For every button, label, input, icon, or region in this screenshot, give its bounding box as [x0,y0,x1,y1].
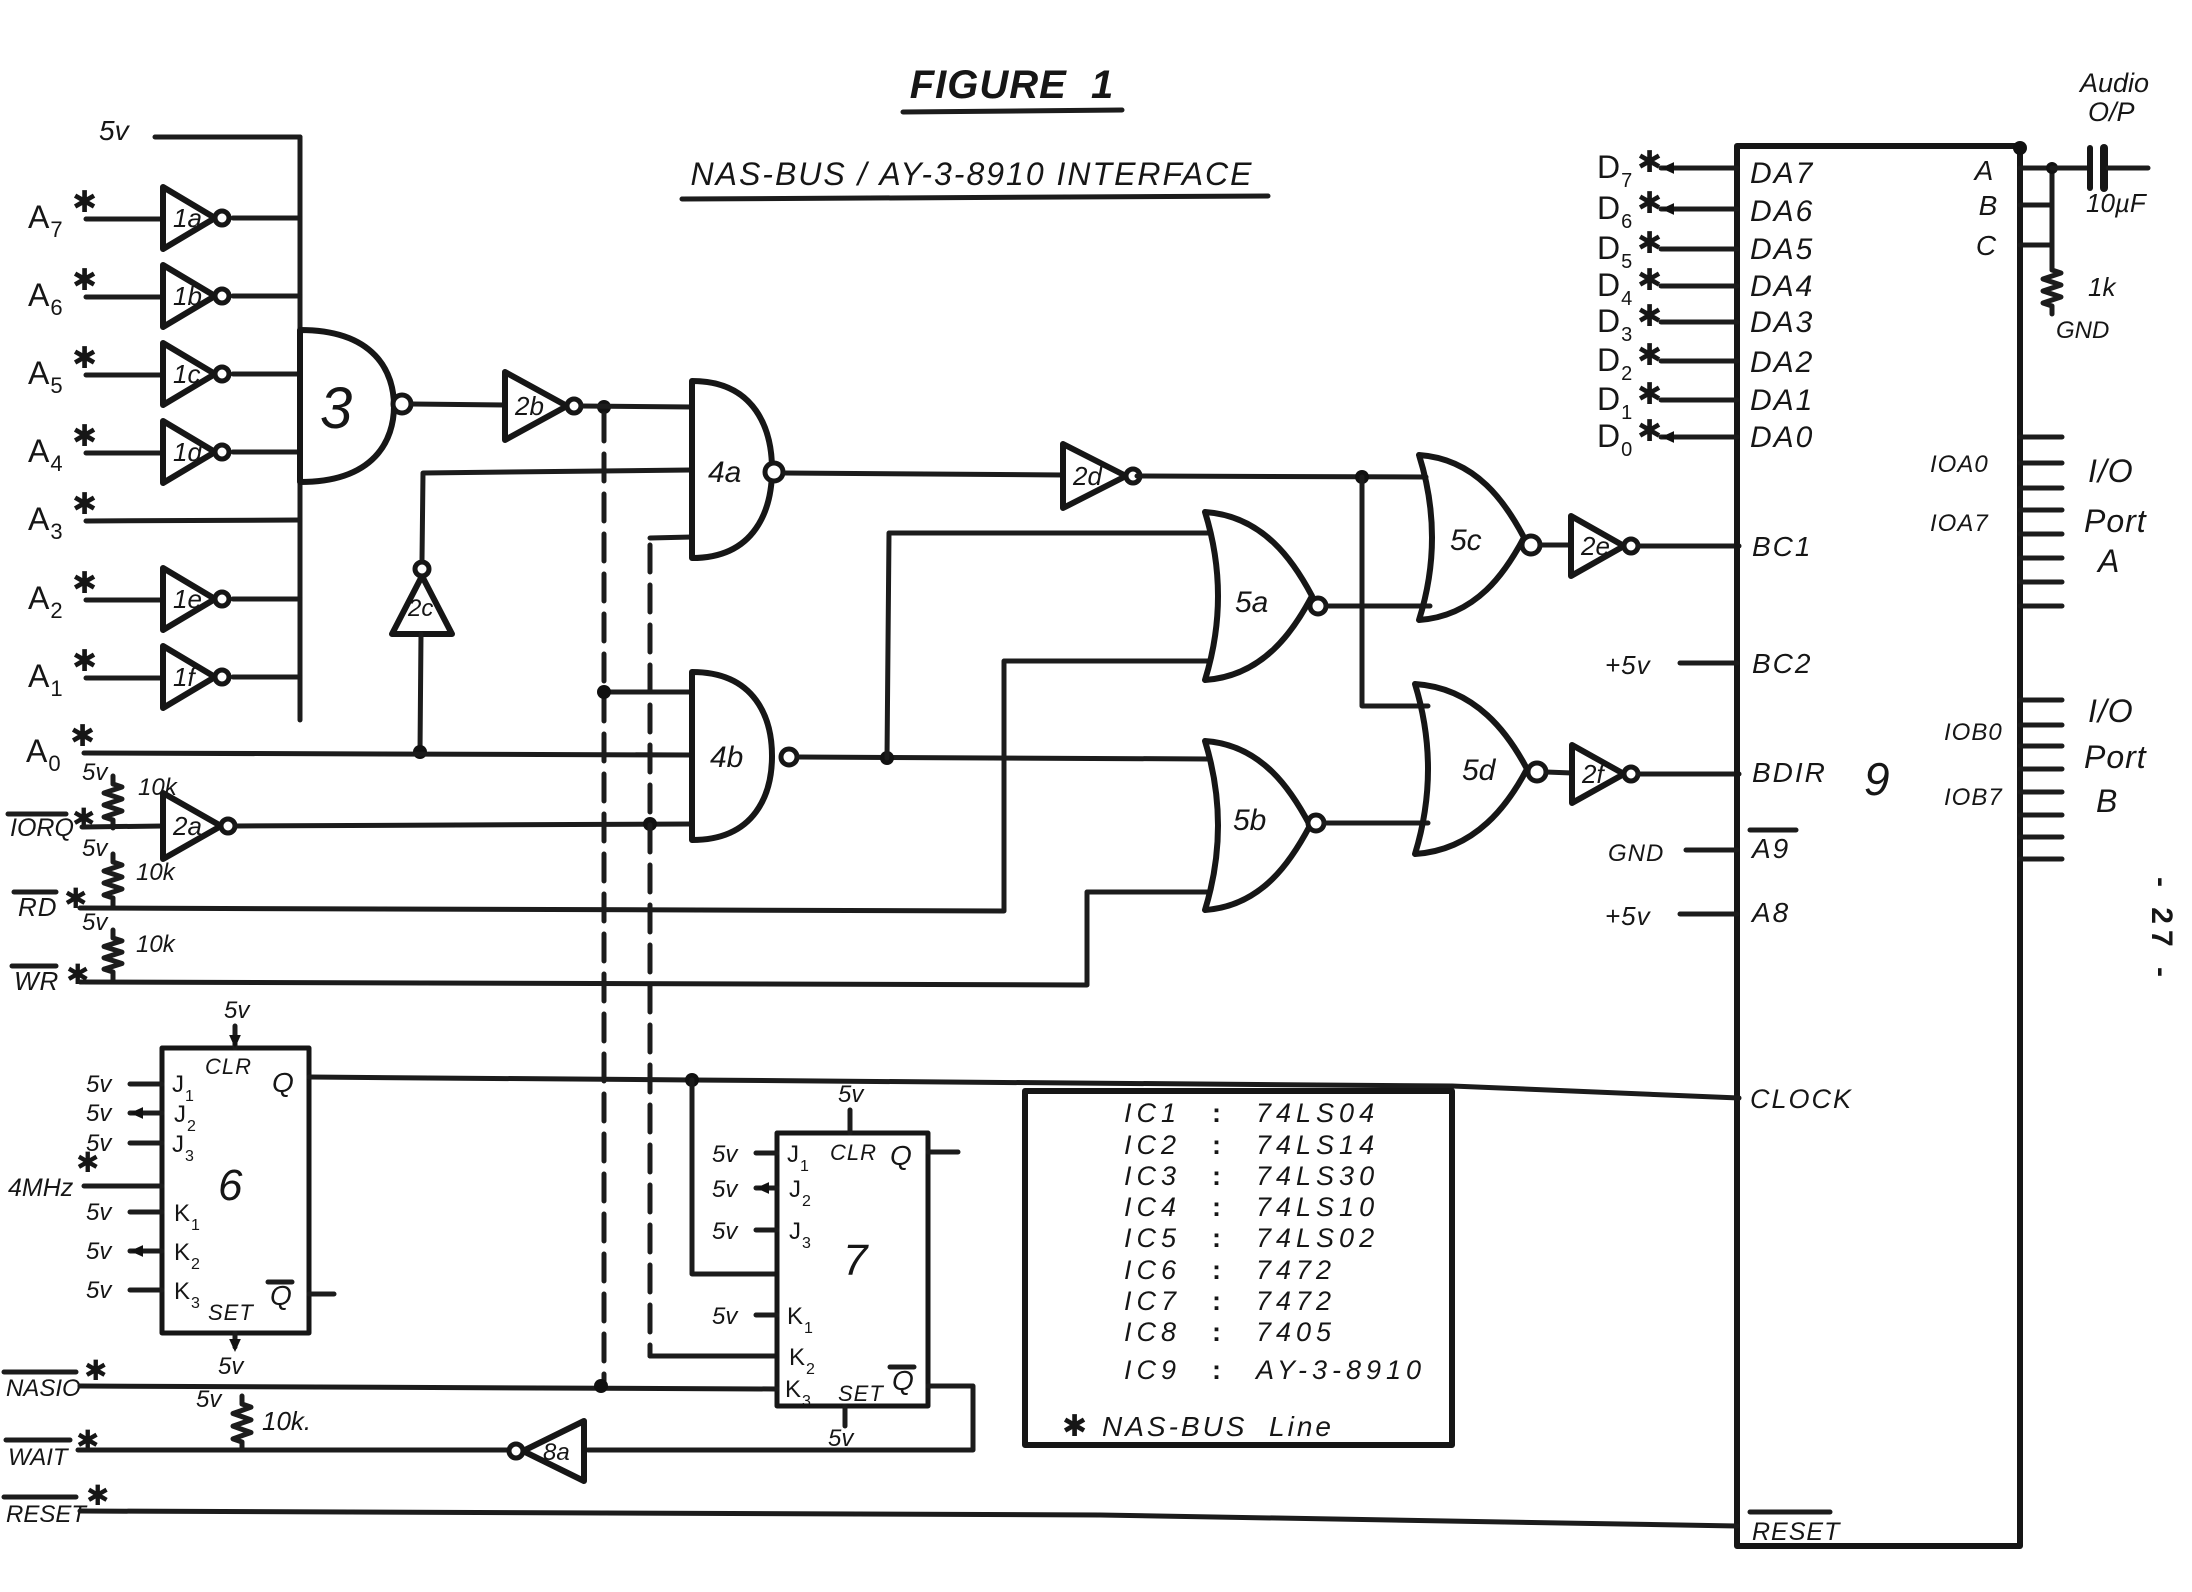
svg-text:5v: 5v [218,1353,245,1380]
svg-text:5v: 5v [712,1303,739,1330]
wire 2b to 4a [581,406,692,407]
svg-text:I/O: I/O [2088,693,2134,729]
pin IOA stub 6 [2020,580,2062,585]
wire 4b top input [604,690,692,695]
wire 5v FF7 [848,1110,853,1133]
pin IOA stub 7 [2020,604,2062,609]
wire A9/GND [1686,848,1737,853]
svg-text:Q: Q [272,1067,294,1098]
svg-text:✱: ✱ [72,645,97,678]
svg-text:✱: ✱ [72,567,97,600]
wire FF7 clock feed [692,1080,777,1274]
svg-text:BC2: BC2 [1752,648,1812,679]
node junction 2d/5d [1355,470,1369,484]
nor gate 5a [1205,512,1312,680]
svg-text:DA0: DA0 [1750,421,1814,454]
svg-text:IC2: IC2 [1124,1130,1181,1160]
wire A5* input [86,373,163,378]
nand gate 4b [692,672,772,840]
svg-text:74LS04: 74LS04 [1256,1098,1379,1128]
svg-text:IOB7: IOB7 [1944,784,2003,811]
capacitor 10uF [2087,148,2093,188]
wire 5v FF6 [233,1026,238,1048]
wire 2c output up to 4a [422,470,690,560]
pin IOA stub 3 [2020,508,2062,513]
wire 5v feed [155,135,300,140]
svg-text:DA5: DA5 [1750,233,1814,266]
svg-text:1e: 1e [173,584,202,614]
svg-text:74LS30: 74LS30 [1256,1161,1379,1191]
node junction dashed/4b [597,685,611,699]
svg-text:WR: WR [14,966,59,996]
svg-text:74LS14: 74LS14 [1256,1130,1379,1160]
parts list box [1025,1091,1452,1445]
wire FF7 J2 [756,1186,777,1191]
svg-text:+5v: +5v [1605,650,1652,680]
resistor 10k IORQ pullup [104,776,122,828]
wire IORQ* input [82,826,163,827]
svg-text:✱: ✱ [72,342,97,375]
svg-text:5d: 5d [1462,754,1497,787]
svg-text:7405: 7405 [1256,1317,1336,1347]
wire FF7 Q stub [928,1150,958,1155]
svg-text::: : [1212,1317,1221,1347]
ic FF6 box [162,1048,309,1333]
svg-text:1f: 1f [173,662,197,692]
svg-text:5v: 5v [86,1071,113,1098]
svg-text:1k: 1k [2088,272,2117,302]
svg-text:2b: 2b [514,391,544,421]
svg-text:DA3: DA3 [1750,306,1814,339]
wire FF6 J1 [130,1082,162,1087]
wire FF6 SET 5v [233,1333,238,1347]
wire 5d to 2f [1546,772,1572,773]
svg-text:2f: 2f [1581,759,1606,789]
svg-text:CLR: CLR [830,1140,877,1165]
wire A4* input [86,451,163,456]
svg-text:IC4: IC4 [1124,1192,1181,1222]
svg-text:NAS-BUS Line: NAS-BUS Line [1102,1411,1334,1442]
inverter 1f [163,646,215,708]
wire D7* [1661,166,1737,171]
wire 5b to 5d [1324,821,1428,826]
wire D4* [1661,284,1737,289]
svg-text:IOA0: IOA0 [1930,451,1989,478]
inverter 1b [163,265,215,327]
wire BDIR [1638,772,1739,777]
svg-text:✱: ✱ [1637,378,1662,411]
svg-text:✱: ✱ [72,420,97,453]
nor gate 5c [1419,455,1524,620]
pin IOA stub 1 [2020,461,2062,466]
svg-text:Port: Port [2084,739,2147,775]
svg-text:IC1: IC1 [1124,1098,1181,1128]
svg-text:4a: 4a [708,456,741,489]
pin IOA stub 2 [2020,486,2062,491]
svg-text:IC9: IC9 [1124,1355,1181,1385]
svg-text:5v: 5v [82,835,109,862]
wire C out [2020,243,2052,248]
svg-text:8a: 8a [543,1439,570,1466]
svg-text:DA4: DA4 [1750,270,1814,303]
wire WAIT* [78,1448,509,1453]
wire FF7 K1 [756,1313,777,1318]
ic U9 AY-3-8910 box [1737,146,2020,1546]
svg-text:✱: ✱ [1637,339,1662,372]
svg-text:✱: ✱ [84,1355,108,1386]
wire D6* [1661,207,1737,212]
pin IOA stub 4 [2020,532,2062,537]
svg-text:✱: ✱ [1637,187,1662,220]
svg-text:5v: 5v [99,115,131,146]
svg-text:7472: 7472 [1256,1286,1336,1316]
wire 2d to 5c [1137,476,1426,477]
svg-text:✱: ✱ [1637,146,1662,179]
svg-text:7472: 7472 [1256,1255,1336,1285]
pin IOA stub 5 [2020,556,2062,561]
svg-text:IC6: IC6 [1124,1255,1181,1285]
pin IOB stub 2 [2020,744,2062,749]
wire FF7 J3 [756,1228,777,1233]
wire D3* [1661,320,1737,325]
inverter 8a [523,1421,584,1481]
wire FF6 J2 [130,1111,162,1116]
svg-text::: : [1212,1286,1221,1316]
svg-text:10k: 10k [136,859,177,886]
svg-text:NASIO: NASIO [6,1375,81,1402]
wire 4MHz input [84,1184,162,1189]
svg-text:B: B [2096,783,2118,819]
resistor 1k [2043,262,2061,314]
wire D5* [1661,247,1737,252]
wire 1a output [233,216,300,221]
svg-text:A8: A8 [1750,897,1790,928]
svg-text:CLR: CLR [205,1054,252,1079]
svg-text:DA1: DA1 [1750,384,1814,417]
inverter 1d [163,421,215,483]
svg-text:GND: GND [2056,317,2109,344]
inverter 2a [163,793,221,859]
svg-text:✱: ✱ [86,1480,110,1511]
wire RD* [80,661,1210,911]
nand gate 3 (74LS30) [300,330,394,482]
svg-text:5v: 5v [82,909,109,936]
node junction clock/FF7 [685,1073,699,1087]
svg-text:2e: 2e [1580,531,1610,561]
svg-text:✱: ✱ [72,264,97,297]
node junction A/cap [2046,162,2058,174]
svg-text:5a: 5a [1235,586,1268,619]
svg-text:RD: RD [18,892,58,922]
node junction A0/2c [413,745,427,759]
wire FF6 Qbar stub [309,1292,334,1297]
svg-text::: : [1212,1161,1221,1191]
svg-text:74LS02: 74LS02 [1256,1223,1379,1253]
svg-text:BDIR: BDIR [1752,757,1827,788]
svg-text:4b: 4b [710,741,743,774]
svg-text:5v: 5v [712,1141,739,1168]
svg-text::: : [1212,1130,1221,1160]
nor gate 5b [1205,741,1310,910]
svg-text::: : [1212,1223,1221,1253]
wire FF6 K1 [130,1210,162,1215]
wire FF6 J3 [130,1141,162,1146]
node junction NASIO/dashed [594,1379,608,1393]
node junction 2b output [597,400,611,414]
wire BC2 [1680,661,1737,666]
svg-text:CLOCK: CLOCK [1750,1084,1853,1114]
svg-text:10k.: 10k. [262,1406,311,1436]
svg-text:74LS10: 74LS10 [1256,1192,1379,1222]
wire A2* input [86,598,163,603]
wire input rail IC3 [298,137,303,720]
wire junction down to 5d [1362,477,1428,706]
wire A8 [1680,912,1737,917]
svg-text:DA6: DA6 [1750,195,1814,228]
inverter 2f [1572,745,1624,803]
svg-text:BC1: BC1 [1752,531,1812,562]
svg-text:A: A [1973,155,1994,186]
svg-text:RESET: RESET [6,1501,88,1528]
svg-text:5v: 5v [712,1218,739,1245]
resistor 10k RD pullup [104,854,122,906]
svg-text:NAS-BUS / AY-3-8910 INTERFACE: NAS-BUS / AY-3-8910 INTERFACE [690,156,1253,192]
svg-text:5c: 5c [1450,524,1482,557]
svg-text:✱: ✱ [1637,264,1662,297]
svg-text:+5v: +5v [1605,901,1652,931]
inverter 1e [163,568,215,630]
svg-text:✱: ✱ [66,959,90,990]
svg-text:Q: Q [270,1280,292,1311]
nand gate 4a [692,381,772,558]
svg-text:Q: Q [892,1365,914,1396]
wire WR* [80,892,1210,985]
svg-text:IC8: IC8 [1124,1317,1181,1347]
pin IOB stub 6 [2020,835,2062,840]
svg-text:5v: 5v [86,1277,113,1304]
pin IOB stub 5 [2020,813,2062,818]
wire A7* input [86,217,163,222]
wire dashed top to 4a [650,537,692,538]
svg-text:2d: 2d [1072,461,1103,491]
wire riser to 5a [887,533,1210,758]
wire 1c output [233,372,300,377]
wire 1e output [233,597,300,602]
svg-text:B: B [1979,190,1998,221]
svg-text:DA2: DA2 [1750,346,1814,379]
svg-text:10µF: 10µF [2086,188,2148,218]
wire NASIO* [80,1386,777,1389]
wire 5a to 5c [1326,604,1430,609]
wire A1* input [86,676,163,681]
wire dashed bus to NASIO [602,414,607,1383]
wire 1f output [233,675,300,680]
inverter 2d [1063,444,1126,508]
svg-text:WAIT: WAIT [8,1444,70,1471]
svg-text:FIGURE 1: FIGURE 1 [910,63,1115,107]
inverter 2c [392,576,452,634]
svg-text:✱: ✱ [70,720,95,753]
svg-text:SET: SET [838,1381,884,1406]
svg-text:✱: ✱ [1637,300,1662,333]
svg-text:✱: ✱ [72,488,97,521]
wire 4b to 5b [798,757,1208,759]
pin IOB stub 3 [2020,767,2062,772]
inverter 1a [163,187,215,249]
wire FF7 SET 5v [843,1406,848,1426]
pin IOB stub 0 [2020,698,2062,703]
svg-text:6: 6 [218,1161,243,1210]
node junction ic corner [2013,141,2027,155]
wire RESET* [80,1511,1737,1526]
wire dashed bottom to FF7 K2 [650,1354,777,1359]
wire 3 to 2b [412,404,505,405]
svg-text:A: A [2096,543,2120,579]
wire A3* [86,520,300,521]
svg-text:IC7: IC7 [1124,1286,1181,1316]
wire to capacitor [2052,166,2088,171]
pin IOB stub 1 [2020,723,2062,728]
svg-text:5v: 5v [86,1199,113,1226]
svg-text:1d: 1d [173,437,203,467]
svg-text:IC5: IC5 [1124,1223,1181,1253]
svg-text:2a: 2a [172,811,202,841]
wire D2* [1661,359,1737,364]
pin IOB stub 7 [2020,857,2062,862]
svg-text:3: 3 [320,376,352,441]
svg-text:O/P: O/P [2088,97,2135,127]
svg-text:5b: 5b [1233,804,1266,837]
wire D1* [1661,398,1737,403]
wire ABC common [2050,168,2055,262]
svg-text:1a: 1a [173,203,202,233]
resistor 10k WR pullup [104,930,122,980]
svg-text:✱: ✱ [1637,415,1662,448]
svg-text:AY-3-8910: AY-3-8910 [1254,1355,1426,1385]
svg-text:✱: ✱ [1062,1410,1088,1443]
ic FF7 box [777,1133,928,1406]
svg-text::: : [1212,1355,1221,1385]
svg-text::: : [1212,1098,1221,1128]
svg-text:✱: ✱ [76,1147,100,1178]
svg-text:1c: 1c [173,359,200,389]
svg-text:5v: 5v [224,997,251,1024]
svg-text:IOA7: IOA7 [1930,510,1989,537]
wire 1d output [233,450,300,455]
svg-text:10k: 10k [136,931,177,958]
svg-text:I/O: I/O [2088,453,2134,489]
svg-text:Port: Port [2084,503,2147,539]
wire 5c to 2e [1540,543,1571,548]
svg-text:DA7: DA7 [1750,157,1814,190]
wire A0* [84,753,692,755]
wire 2a to 4b [235,824,692,826]
svg-text:9: 9 [1864,753,1890,805]
svg-text:Audio: Audio [2078,68,2149,98]
svg-text:A9: A9 [1750,833,1790,864]
svg-text:2c: 2c [407,595,433,622]
svg-text:IOB0: IOB0 [1944,719,2003,746]
svg-text:Q: Q [890,1140,912,1171]
inverter 2b [505,372,567,440]
wire FF7 Qbar to 8a [588,1386,973,1450]
svg-text:✱: ✱ [1637,227,1662,260]
node junction 4b/5a riser [880,751,894,765]
svg-text:5v: 5v [828,1425,855,1452]
svg-text:5v: 5v [196,1386,223,1413]
svg-text:5v: 5v [82,759,109,786]
wire D0* [1661,435,1737,440]
svg-text::: : [1212,1192,1221,1222]
wire 1b output [233,294,300,299]
svg-text:RESET: RESET [1752,1518,1841,1546]
pin IOB stub 4 [2020,790,2062,795]
svg-text:4MHz: 4MHz [8,1174,74,1202]
svg-text:- 27 -: - 27 - [2145,877,2178,983]
svg-text::: : [1212,1255,1221,1285]
wire A6* input [86,295,163,300]
wire FF7 J1 [756,1151,777,1156]
svg-text:IC3: IC3 [1124,1161,1181,1191]
wire B out [2020,203,2052,208]
svg-text:GND: GND [1608,840,1664,867]
inverter 2e [1571,516,1624,576]
svg-text:5v: 5v [86,1238,113,1265]
wire cap out [2108,166,2148,171]
svg-text:C: C [1976,230,1997,261]
svg-text:7: 7 [843,1236,869,1285]
svg-text:IORQ: IORQ [10,814,74,842]
svg-text:SET: SET [208,1300,254,1325]
pin IOA stub 0 [2020,435,2062,440]
inverter 1c [163,343,215,405]
nor gate 5d [1415,684,1527,854]
node junction 2a/dashed [643,817,657,831]
resistor 10k WAIT pullup [233,1396,251,1450]
wire BC1 [1638,544,1739,549]
svg-text:✱: ✱ [72,186,97,219]
svg-text:5v: 5v [86,1100,113,1127]
wire dashed bus IORQ decode [648,545,653,1356]
svg-text:5v: 5v [838,1081,865,1108]
wire 2c input from A0 line [420,634,421,752]
svg-text:1b: 1b [173,281,202,311]
wire A out [2020,166,2052,171]
wire 4a to 2d [784,473,1063,475]
wire CLOCK net [309,1077,1739,1098]
svg-text:5v: 5v [712,1176,739,1203]
wire FF6 K2 [130,1249,162,1254]
wire FF6 K3 [130,1288,162,1293]
